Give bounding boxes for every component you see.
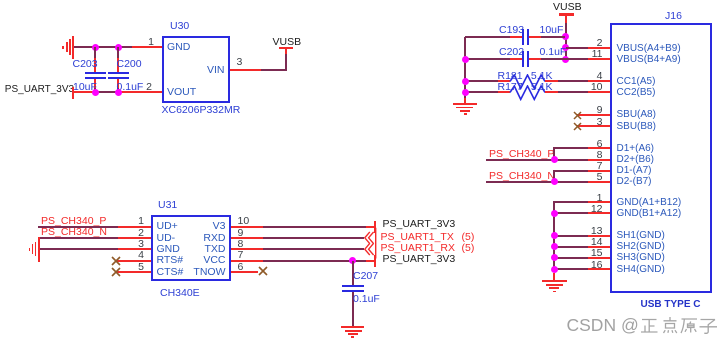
- pin 2: [130, 228, 144, 239]
- watermark CSDN: [567, 317, 639, 335]
- pin 4: [588, 71, 603, 82]
- wire U31 pin5 no-connect: [116, 271, 151, 273]
- pin 8: [588, 150, 603, 161]
- pin 4: [130, 250, 144, 261]
- wire U31 pin1: [38, 226, 118, 228]
- node PS_UART_3V3 label + wire to U30 pin2: [5, 85, 74, 95]
- capacitor C207: [352, 261, 354, 285]
- resistor R177 5.1K: [465, 91, 498, 93]
- op-amp U31 CH340E: [151, 215, 231, 281]
- node PS_CH340_N label at J16: [489, 171, 555, 182]
- pin 9: [588, 105, 603, 116]
- pin 10: [588, 82, 603, 93]
- wire U31 pin7 VCC to PS_UART_3V3: [231, 260, 264, 262]
- wire U31 pin9 RXD: [231, 237, 264, 239]
- pin 2: [588, 38, 603, 49]
- pin 6: [588, 139, 603, 150]
- no-connect X pin3: [573, 122, 582, 131]
- node junction D+: [551, 156, 558, 163]
- node junction pin16: [551, 266, 558, 273]
- pin 3: [130, 239, 144, 250]
- no-connect X pin6: [258, 266, 268, 276]
- wire U31 pin6 no-connect: [231, 271, 258, 273]
- port chevrons for PS_UART1_TX / PS_UART1_RX: [360, 225, 382, 262]
- node junction C203 top: [92, 44, 99, 51]
- node PS_UART1_RX label: [381, 243, 456, 254]
- node junction pin15: [551, 254, 558, 261]
- wire pin12: [554, 212, 588, 214]
- pin 5: [588, 172, 603, 183]
- wire PS_CH340_P to pins 6/8: [486, 159, 555, 161]
- wire J16 pin3 no-connect: [577, 125, 610, 127]
- ground GND below J16: [542, 280, 567, 282]
- pin 1: [140, 37, 154, 48]
- pin 1: [130, 216, 144, 227]
- node junction C203 bottom: [92, 89, 99, 96]
- resistor R181 5.1K: [465, 80, 498, 82]
- connector J16 USB TYPE C: [610, 23, 712, 293]
- wire pin14: [554, 246, 588, 248]
- pin 8: [238, 239, 244, 250]
- pin 5: [130, 262, 144, 273]
- node junction D-: [551, 178, 558, 185]
- wire left bus to ground: [464, 37, 466, 98]
- wire PS_CH340_N to pins 7/5: [486, 181, 555, 183]
- wire U31 pin4 no-connect: [116, 260, 151, 262]
- no-connect X pin9: [573, 111, 582, 120]
- capacitor C193: [465, 36, 510, 38]
- node junction pin14: [551, 243, 558, 250]
- node junction VUSB/C193: [562, 33, 569, 40]
- pin 3: [588, 117, 603, 128]
- wire J16 pin9 no-connect: [577, 114, 610, 116]
- node junction bus/R181: [462, 78, 469, 85]
- node junction C207 top: [349, 257, 356, 264]
- node PS_CH340_P label: [41, 216, 106, 227]
- power VUSB at J16: [553, 2, 582, 13]
- wire U31 pin10 V3 to PS_UART_3V3: [231, 226, 264, 228]
- capacitor C200: [117, 47, 119, 58]
- wire J16 pin11 stub: [588, 58, 610, 60]
- pin 13: [588, 226, 603, 237]
- node junction VUSB/pin2: [562, 44, 569, 51]
- ground GND (earth) at U30 input: [62, 46, 64, 49]
- pin 16: [588, 260, 603, 271]
- node junction bus/C202: [462, 56, 469, 63]
- wire U30 pin3 to VUSB: [230, 69, 262, 71]
- ground GND below bus: [453, 103, 477, 105]
- pin 9: [238, 228, 244, 239]
- no-connect X pin5: [111, 267, 121, 277]
- node junction C200 top: [115, 44, 122, 51]
- pin 7: [238, 250, 244, 261]
- pin 15: [588, 248, 603, 259]
- ground GND (earth) at U31: [29, 248, 31, 251]
- power VUSB at U30: [285, 48, 287, 54]
- pin 7: [588, 161, 603, 172]
- wire U31 pin8 TXD: [231, 248, 264, 250]
- node PS_CH340_N label: [41, 227, 107, 238]
- wire pin15: [554, 257, 588, 259]
- pin 14: [588, 237, 603, 248]
- node junction pin13: [551, 232, 558, 239]
- node junction bus/R177: [462, 89, 469, 96]
- wire U31 pin2: [40, 237, 118, 239]
- pin 10: [238, 216, 250, 227]
- node junction C200 bottom: [115, 89, 122, 96]
- wire J16 pin2 stub: [566, 47, 589, 49]
- no-connect X pin4: [111, 256, 121, 266]
- wire pin13: [554, 235, 588, 237]
- node junction pin12: [551, 210, 558, 217]
- pin 2: [138, 82, 152, 93]
- wire ground to U30 pin1: [74, 46, 132, 48]
- node junction VUSB/C202/pin11: [562, 56, 569, 63]
- wire GND bus of J16: [554, 201, 588, 203]
- ground GND below C207: [341, 326, 365, 328]
- wire U31 pin3: [40, 248, 118, 250]
- node PS_UART1_TX label: [381, 232, 454, 243]
- pin 12: [588, 204, 603, 215]
- wire pin16: [554, 268, 588, 270]
- node PS_CH340_P label at J16: [489, 149, 554, 160]
- pin 1: [588, 193, 603, 204]
- wire U30 pin1 stub: [132, 46, 162, 48]
- pin 11: [588, 49, 603, 60]
- pin 3: [237, 57, 243, 68]
- pin 6: [238, 262, 244, 273]
- op-amp U30 regulator XC6206P332MR: [162, 36, 230, 103]
- capacitor C202: [465, 58, 510, 60]
- capacitor C203: [94, 47, 96, 58]
